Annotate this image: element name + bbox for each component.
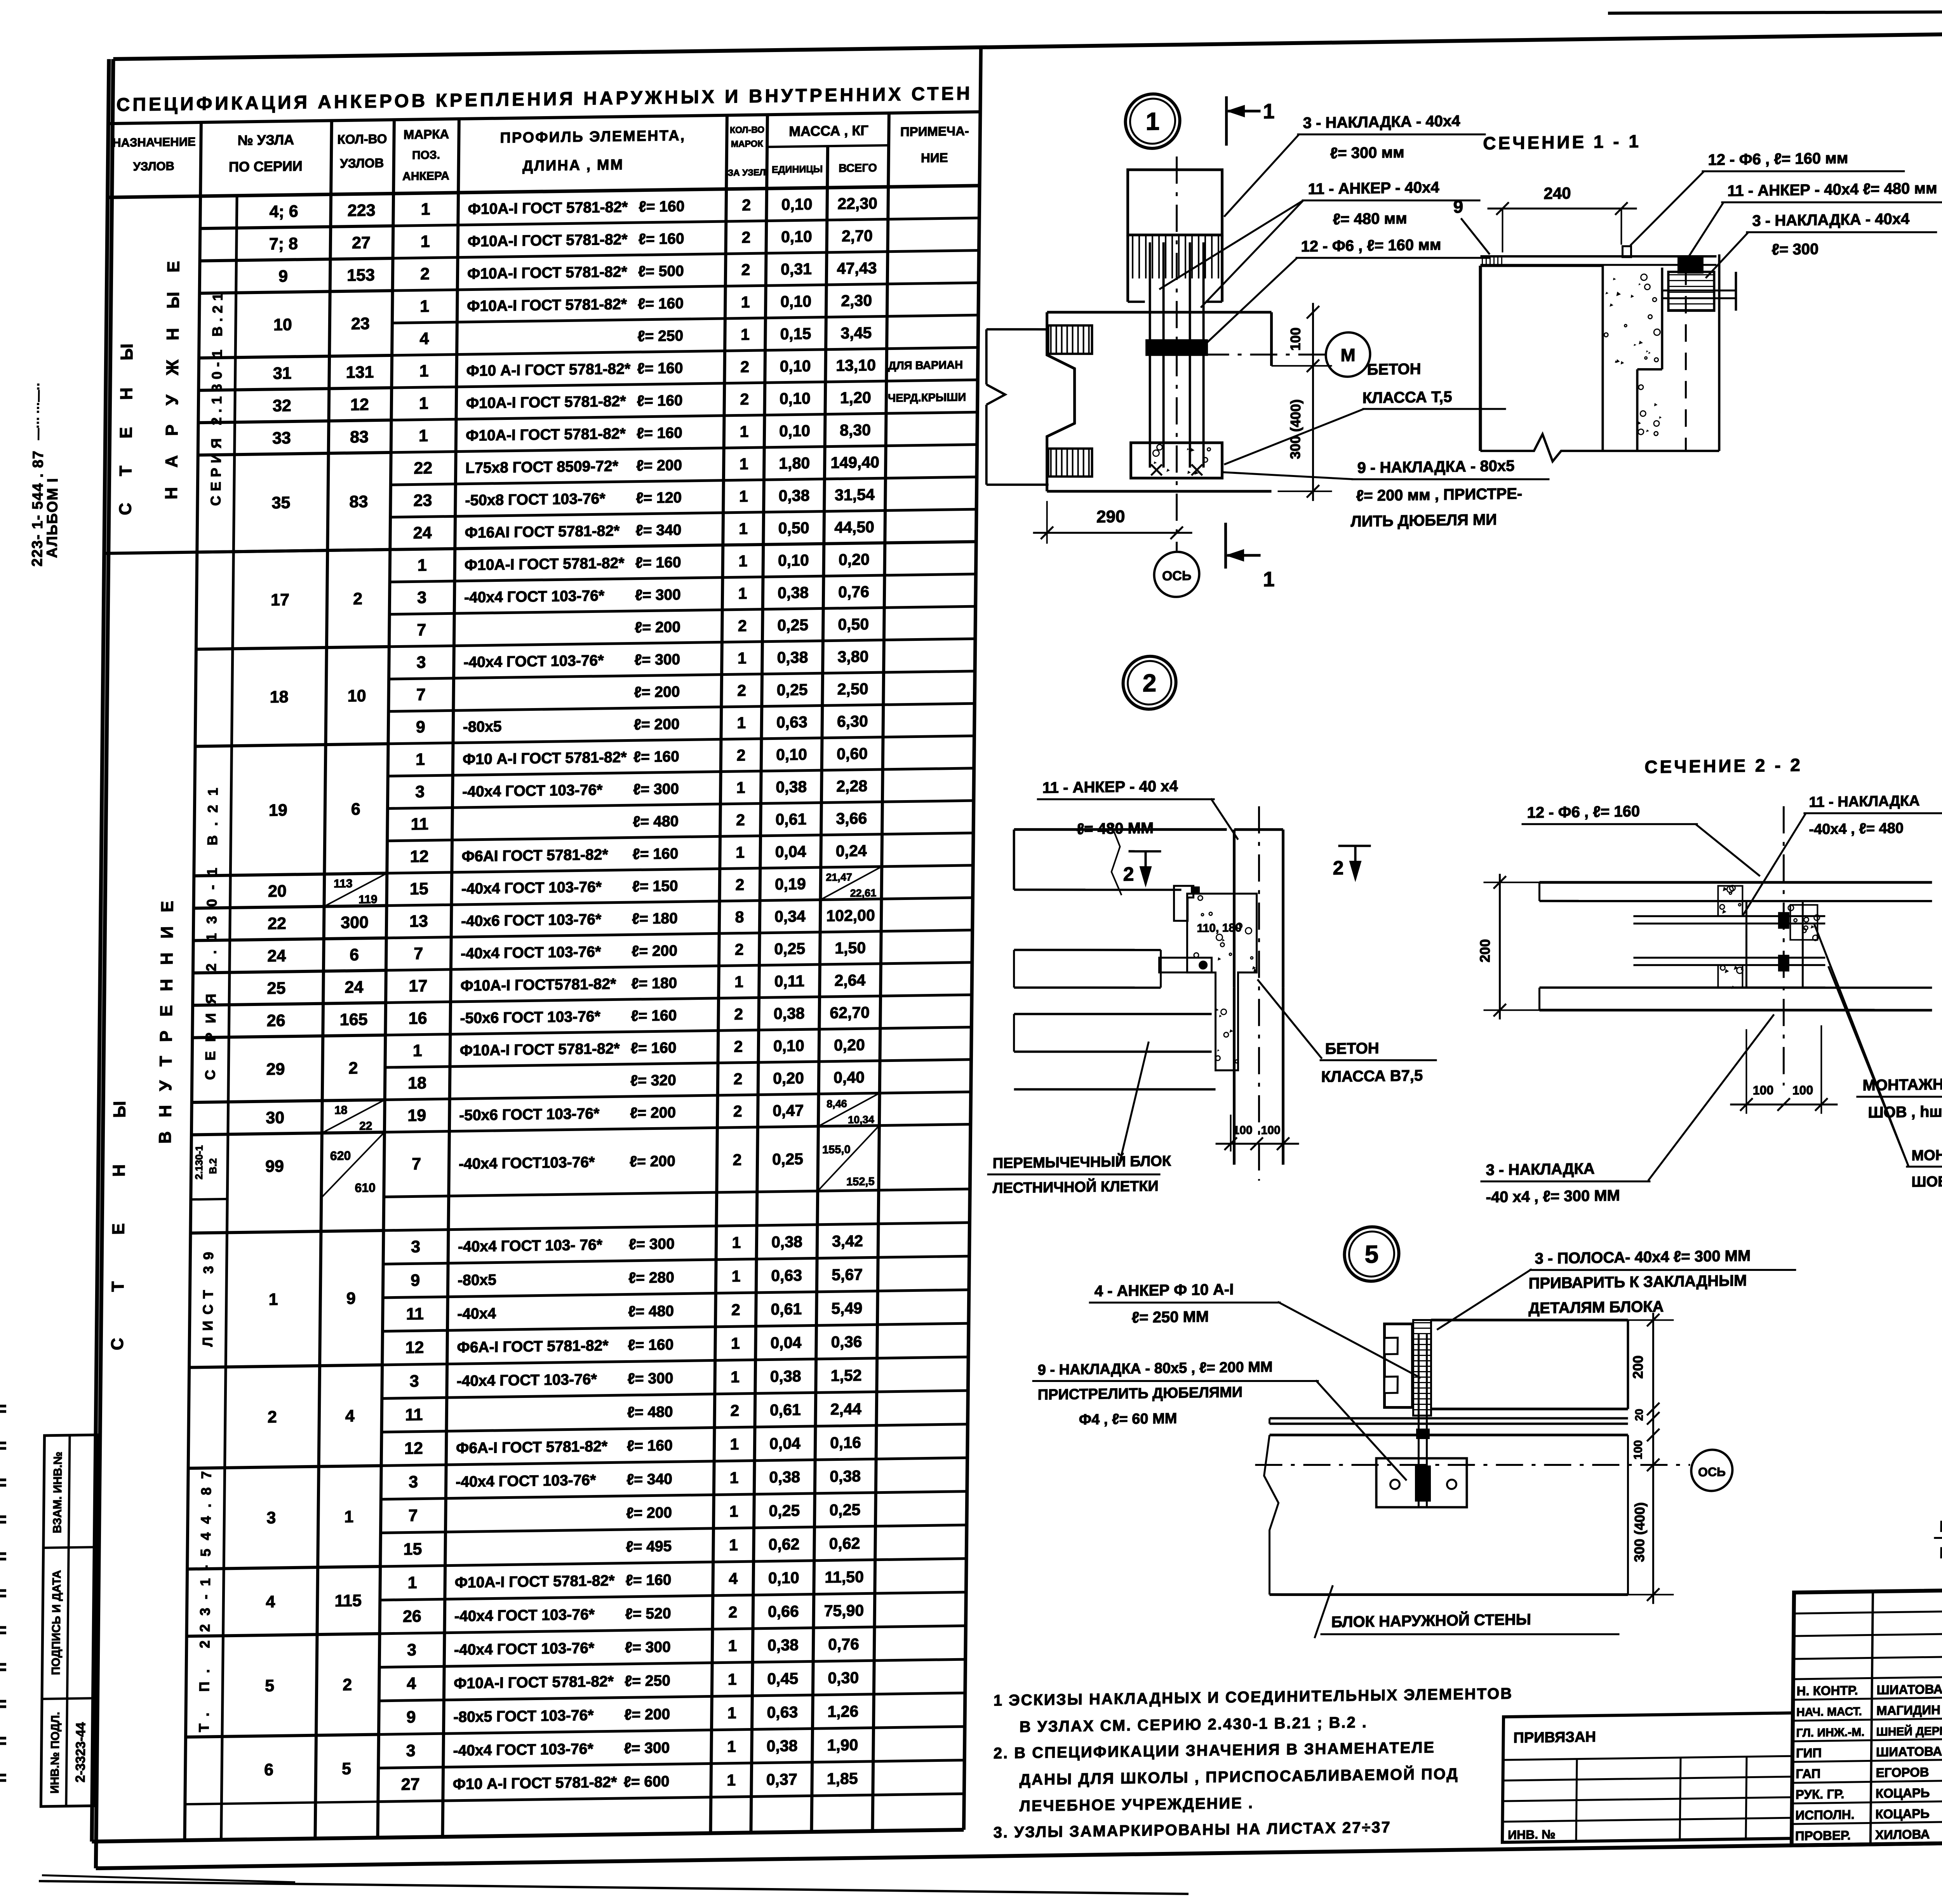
svg-text:НИЕ: НИЕ: [921, 150, 948, 165]
svg-text:0,38: 0,38: [771, 1233, 802, 1251]
svg-text:0,31: 0,31: [781, 260, 812, 278]
svg-text:―··· ···―··: ―··· ···―··: [31, 382, 45, 440]
section22 welds: [1778, 912, 1789, 928]
svg-text:1: 1: [741, 293, 750, 311]
svg-text:Ф10А-I ГОСТ 5781-82*: Ф10А-I ГОСТ 5781-82*: [467, 263, 628, 282]
svg-text:10: 10: [273, 315, 292, 334]
svg-text:3 - НАКЛАДКА - 40х4: 3 - НАКЛАДКА - 40х4: [1752, 210, 1910, 229]
svg-text:30: 30: [266, 1109, 284, 1128]
svg-text:АЛЬБОМ I: АЛЬБОМ I: [44, 477, 61, 558]
svg-text:0,63: 0,63: [776, 713, 807, 731]
svg-text:1: 1: [739, 487, 748, 505]
svg-text:2: 2: [1333, 857, 1343, 879]
node5 floor slab: [1269, 1413, 1628, 1423]
page edge line top right: [1608, 9, 1942, 13]
svg-text:Ф10 А-I ГОСТ 5781-82*: Ф10 А-I ГОСТ 5781-82*: [466, 360, 631, 379]
svg-text:0,45: 0,45: [767, 1669, 798, 1688]
svg-text:26: 26: [403, 1607, 421, 1626]
svg-text:3: 3: [417, 588, 426, 607]
svg-text:3,42: 3,42: [832, 1232, 863, 1250]
svg-text:15: 15: [410, 879, 428, 898]
svg-text:2: 2: [741, 228, 750, 246]
svg-text:2: 2: [353, 590, 362, 608]
svg-text:-40х4 ГОСТ 103-76*: -40х4 ГОСТ 103-76*: [464, 587, 605, 606]
axis circle M: [1202, 353, 1325, 357]
svg-text:КОЦАРЬ: КОЦАРЬ: [1876, 1786, 1930, 1801]
svg-text:620: 620: [330, 1149, 351, 1163]
svg-text:610: 610: [355, 1180, 376, 1195]
svg-text:ℓ= 320: ℓ= 320: [630, 1072, 676, 1089]
svg-text:КОЛ-ВО: КОЛ-ВО: [730, 124, 764, 135]
svg-text:ℓ= 160: ℓ= 160: [635, 554, 681, 571]
svg-text:0,62: 0,62: [768, 1535, 799, 1553]
svg-text:ℓ= 480 мм: ℓ= 480 мм: [1333, 210, 1407, 228]
svg-text:0,04: 0,04: [775, 842, 806, 861]
svg-text:3: 3: [409, 1472, 418, 1491]
svg-text:0,19: 0,19: [775, 875, 806, 893]
svg-text:Ф6АI ГОСТ 5781-82*: Ф6АI ГОСТ 5781-82*: [461, 846, 608, 865]
svg-text:ℓ= 180: ℓ= 180: [631, 975, 677, 992]
svg-text:0,11: 0,11: [774, 972, 804, 990]
svg-text:БЛОК ВН. СТЕН: БЛОК ВН. СТЕН: [1939, 1543, 1942, 1561]
svg-text:Ф10А-I ГОСТ 5781-82*: Ф10А-I ГОСТ 5781-82*: [466, 425, 626, 444]
svg-text:2,50: 2,50: [837, 680, 868, 698]
svg-text:0,10: 0,10: [778, 551, 809, 569]
svg-text:-40х4 ГОСТ 103-76*: -40х4 ГОСТ 103-76*: [461, 879, 602, 897]
svg-text:1: 1: [732, 1234, 741, 1251]
svg-text:2,44: 2,44: [830, 1400, 861, 1418]
svg-text:0,10: 0,10: [781, 195, 813, 213]
svg-text:ЕДИНИЦЫ: ЕДИНИЦЫ: [772, 164, 823, 175]
svg-text:3,80: 3,80: [837, 647, 868, 666]
svg-text:ℓ= 160: ℓ= 160: [626, 1572, 672, 1589]
detail node 1 marker circle: [1125, 94, 1180, 149]
svg-text:7: 7: [408, 1506, 418, 1525]
svg-text:ШОВ , hшв. = 4мм: ШОВ , hшв. = 4мм: [1911, 1172, 1942, 1190]
svg-text:1: 1: [421, 232, 430, 251]
svg-text:13: 13: [409, 912, 428, 931]
svg-text:6,30: 6,30: [837, 712, 868, 730]
section 1-1 dashed edge: [1684, 268, 1688, 451]
svg-text:8: 8: [735, 908, 744, 926]
svg-text:62,70: 62,70: [830, 1003, 870, 1022]
svg-text:2: 2: [740, 390, 749, 408]
svg-text:ℓ= 160: ℓ= 160: [628, 1337, 673, 1354]
svg-text:0,76: 0,76: [828, 1635, 859, 1653]
node2 lower slabs: [1014, 948, 1161, 952]
svg-text:0,20: 0,20: [839, 550, 870, 569]
svg-text:МАРОК: МАРОК: [731, 138, 764, 149]
svg-text:0,38: 0,38: [769, 1468, 800, 1486]
svg-text:1: 1: [418, 556, 427, 574]
svg-text:1: 1: [740, 455, 748, 473]
detail node 5 marker circle: [1344, 1227, 1399, 1282]
svg-text:ДЛИНА , ММ: ДЛИНА , ММ: [522, 157, 624, 174]
svg-text:3 - НАКЛАДКА: 3 - НАКЛАДКА: [1486, 1160, 1595, 1179]
svg-text:ℓ= 300: ℓ= 300: [634, 651, 680, 668]
svg-text:ГЛ. ИНЖ.-М.: ГЛ. ИНЖ.-М.: [1796, 1726, 1864, 1739]
svg-text:ПРИМЕЧА-: ПРИМЕЧА-: [900, 124, 969, 139]
svg-text:НАЗНАЧЕНИЕ: НАЗНАЧЕНИЕ: [112, 135, 196, 150]
svg-text:ℓ= 200 мм , ПРИСТРЕ-: ℓ= 200 мм , ПРИСТРЕ-: [1356, 485, 1522, 505]
svg-text:0,38: 0,38: [777, 648, 808, 667]
svg-text:ℓ= 150: ℓ= 150: [632, 878, 678, 895]
svg-text:1: 1: [729, 1536, 738, 1554]
svg-text:7: 7: [412, 1155, 421, 1173]
svg-text:2: 2: [268, 1408, 277, 1426]
svg-text:31,54: 31,54: [835, 486, 875, 504]
svg-text:РУК. ГР.: РУК. ГР.: [1796, 1787, 1845, 1802]
svg-text:2: 2: [730, 1401, 739, 1419]
svg-text:1,26: 1,26: [827, 1702, 858, 1721]
svg-text:ℓ= 300: ℓ= 300: [633, 781, 679, 798]
svg-text:19: 19: [269, 801, 287, 820]
svg-text:25: 25: [267, 979, 285, 998]
svg-text:3: 3: [415, 783, 425, 801]
svg-text:0,50: 0,50: [778, 519, 809, 537]
node2 upper slab: [1014, 827, 1227, 832]
svg-text:-40х4 , ℓ= 480: -40х4 , ℓ= 480: [1809, 820, 1904, 837]
svg-text:ВСЕГО: ВСЕГО: [839, 162, 877, 174]
svg-text:1,50: 1,50: [835, 939, 866, 957]
svg-text:300 (400): 300 (400): [1631, 1502, 1648, 1562]
svg-text:12: 12: [350, 395, 369, 414]
weld joint band 12-F6: [1146, 339, 1207, 356]
svg-text:83: 83: [350, 428, 369, 447]
svg-text:17: 17: [271, 590, 289, 609]
horizontal wall panel plan: [1047, 309, 1272, 315]
svg-text:0,76: 0,76: [838, 583, 869, 601]
svg-text:290: 290: [1096, 507, 1125, 526]
svg-text:3. УЗЛЫ ЗАМАРКИРОВАНЫ НА: 3. УЗЛЫ ЗАМАРКИРОВАНЫ НА ЛИСТАХ 27÷37: [994, 1819, 1391, 1841]
svg-text:1: 1: [419, 426, 428, 445]
svg-text:0,38: 0,38: [767, 1636, 799, 1654]
svg-text:9: 9: [406, 1708, 416, 1726]
svg-text:Ф10А-I ГОСТ 5781-82*: Ф10А-I ГОСТ 5781-82*: [466, 393, 626, 412]
svg-text:ℓ= 200: ℓ= 200: [626, 1504, 672, 1522]
svg-text:2: 2: [733, 1070, 742, 1088]
svg-text:0,63: 0,63: [771, 1266, 802, 1284]
svg-text:4: 4: [407, 1674, 416, 1693]
svg-text:11,50: 11,50: [825, 1568, 864, 1586]
svg-text:2: 2: [742, 196, 751, 214]
svg-text:ℓ= 520: ℓ= 520: [625, 1605, 671, 1623]
svg-text:300 (400): 300 (400): [1287, 399, 1303, 459]
svg-text:ℓ= 600: ℓ= 600: [624, 1773, 670, 1791]
svg-text:11 - АНКЕР - 40х4 ℓ= 480 мм: 11 - АНКЕР - 40х4 ℓ= 480 мм: [1727, 180, 1937, 200]
svg-text:1: 1: [729, 1502, 738, 1520]
svg-text:ПЕРЕМЫЧЕЧНЫЙ БЛОК: ПЕРЕМЫЧЕЧНЫЙ БЛОК: [993, 1152, 1171, 1171]
svg-text:113: 113: [334, 877, 353, 890]
svg-text:1: 1: [739, 520, 748, 538]
svg-text:Т. П. 223-1-544.87: Т. П. 223-1-544.87: [196, 1462, 214, 1732]
svg-text:240: 240: [1544, 184, 1571, 202]
svg-text:5: 5: [1364, 1240, 1378, 1268]
svg-text:0,38: 0,38: [778, 486, 809, 505]
svg-text:83: 83: [349, 493, 368, 512]
section22 lower band: [1539, 982, 1932, 993]
svg-text:-40х4: -40х4: [457, 1305, 496, 1322]
svg-text:ℓ= 200: ℓ= 200: [634, 716, 680, 733]
svg-text:20: 20: [268, 882, 287, 901]
svg-text:1,52: 1,52: [831, 1366, 862, 1385]
svg-text:1: 1: [727, 1737, 736, 1755]
svg-text:0,60: 0,60: [837, 745, 868, 763]
section 1-1 top plate 9: [1480, 253, 1716, 259]
svg-text:Ф10А-I ГОСТ 5781-82*: Ф10А-I ГОСТ 5781-82*: [468, 231, 628, 250]
svg-text:ПОЗ.: ПОЗ.: [412, 149, 440, 162]
svg-text:ℓ= 160: ℓ= 160: [637, 392, 683, 410]
svg-text:ℓ= 160: ℓ= 160: [631, 1039, 677, 1057]
privyazan block: [1502, 1713, 1793, 1842]
svg-text:4: 4: [729, 1570, 738, 1587]
svg-text:1: 1: [730, 1435, 739, 1453]
svg-text:ПРОФИЛЬ ЭЛЕМЕНТА,: ПРОФИЛЬ ЭЛЕМЕНТА,: [500, 127, 686, 146]
svg-text:0,38: 0,38: [776, 778, 807, 796]
svg-text:2: 2: [737, 681, 746, 699]
svg-text:21,47: 21,47: [826, 871, 852, 883]
svg-text:0,36: 0,36: [831, 1333, 862, 1351]
svg-text:10,34: 10,34: [848, 1114, 874, 1126]
svg-text:1: 1: [419, 394, 428, 413]
svg-text:1: 1: [728, 1670, 737, 1688]
svg-text:9: 9: [346, 1289, 356, 1308]
svg-text:0,25: 0,25: [829, 1501, 860, 1519]
svg-text:1,80: 1,80: [779, 454, 810, 472]
svg-text:МАССА , КГ: МАССА , КГ: [789, 122, 868, 139]
specification table outer border: [92, 59, 109, 1841]
svg-text:СТЕНЫ: СТЕНЫ: [116, 316, 137, 515]
section mark 1 bottom: [1225, 523, 1226, 569]
svg-text:2-3323-44: 2-3323-44: [73, 1722, 88, 1783]
svg-text:1: 1: [344, 1507, 353, 1526]
svg-text:СЕЧЕНИЕ 1 - 1: СЕЧЕНИЕ 1 - 1: [1483, 131, 1641, 153]
vertical axis line: [1173, 157, 1180, 551]
svg-text:БЕТОН: БЕТОН: [1367, 360, 1421, 378]
svg-text:5,49: 5,49: [831, 1299, 862, 1317]
svg-text:ШОВ , hшв. = 4ММ: ШОВ , hшв. = 4ММ: [1868, 1102, 1942, 1121]
svg-text:ℓ= 340: ℓ= 340: [626, 1471, 672, 1488]
svg-text:0,10: 0,10: [781, 228, 812, 246]
svg-text:ПЕРЕМЫЧЕЧНЫЙ: ПЕРЕМЫЧЕЧНЫЙ: [1939, 1516, 1942, 1535]
svg-text:УЗЛОВ: УЗЛОВ: [133, 159, 175, 173]
svg-text:0,34: 0,34: [774, 907, 806, 926]
svg-text:2: 2: [740, 358, 749, 376]
svg-text:Ф10А-I ГОСТ 5781-82*: Ф10А-I ГОСТ 5781-82*: [468, 199, 628, 218]
svg-text:4: 4: [266, 1592, 275, 1611]
svg-text:М: М: [1340, 345, 1356, 365]
svg-text:3 - ПОЛОСА- 40х4 ℓ= 300 ММ: 3 - ПОЛОСА- 40х4 ℓ= 300 ММ: [1535, 1247, 1751, 1267]
node5 hatched plate: [1412, 1320, 1432, 1416]
svg-text:75,90: 75,90: [824, 1601, 864, 1620]
svg-text:2: 2: [736, 746, 745, 764]
diagonal split cells col3 and col8: [324, 873, 387, 907]
node2 lower vertical wall: [1232, 988, 1236, 1165]
svg-text:Ф16АI ГОСТ 5781-82*: Ф16АI ГОСТ 5781-82*: [465, 522, 620, 541]
svg-text:153: 153: [347, 266, 375, 285]
svg-text:16: 16: [409, 1009, 427, 1028]
section mark 1 top: [1226, 96, 1227, 146]
svg-text:МАГИДИН: МАГИДИН: [1876, 1702, 1940, 1718]
svg-text:1: 1: [1263, 100, 1275, 123]
svg-text:0,04: 0,04: [770, 1333, 801, 1352]
svg-text:Ф10А-I ГОСТ 5781-82*: Ф10А-I ГОСТ 5781-82*: [454, 1673, 614, 1692]
svg-text:0,40: 0,40: [834, 1068, 865, 1086]
svg-text:200: 200: [1630, 1355, 1646, 1379]
svg-text:5: 5: [342, 1760, 351, 1778]
svg-text:18: 18: [270, 687, 289, 707]
svg-text:18: 18: [334, 1104, 348, 1117]
svg-text:2: 2: [734, 1037, 743, 1055]
svg-text:11: 11: [406, 1305, 424, 1324]
svg-text:ℓ= 200: ℓ= 200: [630, 1104, 676, 1122]
svg-text:0,61: 0,61: [771, 1300, 802, 1318]
svg-text:1: 1: [413, 1041, 422, 1060]
svg-text:99: 99: [265, 1157, 284, 1176]
svg-text:0,04: 0,04: [769, 1434, 800, 1453]
svg-text:ГИП: ГИП: [1796, 1746, 1822, 1760]
hatched end block bottom: [1048, 448, 1092, 477]
svg-text:ПРОВЕР.: ПРОВЕР.: [1795, 1828, 1851, 1843]
svg-text:1: 1: [408, 1573, 417, 1592]
upper panel hatched joint zone: [1127, 235, 1128, 302]
svg-text:223: 223: [348, 201, 376, 220]
section 1-1 right wall edge: [1718, 254, 1721, 451]
svg-text:-50х8 ГОСТ 103-76*: -50х8 ГОСТ 103-76*: [465, 490, 606, 509]
svg-text:ℓ= 160: ℓ= 160: [633, 748, 679, 766]
svg-text:2,70: 2,70: [842, 227, 873, 245]
svg-text:1: 1: [740, 423, 748, 440]
section22 axis: [1781, 806, 1786, 1086]
svg-text:Ф10 А-I ГОСТ 5781-82*: Ф10 А-I ГОСТ 5781-82*: [453, 1774, 618, 1793]
node2 concrete tee: [1185, 893, 1257, 1071]
svg-text:23: 23: [351, 314, 370, 333]
svg-text:Н. КОНТР.: Н. КОНТР.: [1796, 1683, 1858, 1698]
svg-text:27: 27: [401, 1775, 420, 1794]
svg-text:ЛЕСТНИЧНОЙ КЛЕТКИ: ЛЕСТНИЧНОЙ КЛЕТКИ: [993, 1177, 1159, 1197]
svg-text:ЗА УЗЕЛ: ЗА УЗЕЛ: [728, 167, 766, 178]
svg-text:22,30: 22,30: [837, 194, 877, 212]
svg-text:2: 2: [741, 261, 750, 278]
svg-text:ℓ= 340: ℓ= 340: [635, 522, 681, 539]
svg-text:ИНВ.№ ПОДЛ.: ИНВ.№ ПОДЛ.: [49, 1712, 62, 1794]
svg-text:ЛИТЬ ДЮБЕЛЯ МИ: ЛИТЬ ДЮБЕЛЯ МИ: [1350, 511, 1497, 530]
svg-text:ℓ= 480: ℓ= 480: [633, 813, 679, 830]
svg-text:1: 1: [736, 843, 745, 861]
svg-text:3: 3: [416, 653, 426, 672]
svg-text:2: 2: [738, 617, 747, 635]
svg-text:100: 100: [1632, 1440, 1644, 1460]
section22 joint verticals: [1745, 901, 1747, 988]
svg-text:20: 20: [1633, 1409, 1645, 1421]
svg-text:2: 2: [735, 875, 744, 893]
svg-text:-50х6 ГОСТ 103-76*: -50х6 ГОСТ 103-76*: [459, 1105, 600, 1124]
svg-text:ℓ= 200: ℓ= 200: [630, 1153, 675, 1170]
svg-text:ℓ= 300 мм: ℓ= 300 мм: [1330, 144, 1404, 162]
svg-text:ℓ= 120: ℓ= 120: [636, 489, 682, 507]
svg-text:ЛИСТ 39: ЛИСТ 39: [200, 1246, 216, 1347]
svg-text:-40х4 ГОСТ 103-76*: -40х4 ГОСТ 103-76*: [461, 943, 601, 962]
svg-text:9: 9: [278, 267, 288, 285]
svg-text:-40х4 ГОСТ 103-76*: -40х4 ГОСТ 103-76*: [456, 1371, 597, 1390]
table column lines: [184, 122, 201, 1840]
title block border: [1792, 1582, 1942, 1845]
svg-text:Ф10А-I ГОСТ 5781-82*: Ф10А-I ГОСТ 5781-82*: [455, 1572, 615, 1591]
svg-text:ГАП: ГАП: [1796, 1766, 1820, 1781]
svg-text:ВЗАМ. ИНВ.№: ВЗАМ. ИНВ.№: [51, 1451, 64, 1533]
svg-text:11 - АНКЕР - 40х4: 11 - АНКЕР - 40х4: [1308, 179, 1439, 198]
svg-text:100: 100: [1233, 1124, 1252, 1137]
svg-text:0,10: 0,10: [780, 389, 811, 407]
svg-text:6: 6: [264, 1761, 273, 1779]
svg-text:35: 35: [271, 493, 290, 512]
svg-text:12: 12: [410, 847, 429, 866]
svg-text:0,66: 0,66: [768, 1602, 799, 1620]
svg-text:ℓ= 300: ℓ= 300: [625, 1639, 671, 1656]
svg-text:1 ЭСКИЗЫ НАКЛАДНЫХ И СОЕДИН: 1 ЭСКИЗЫ НАКЛАДНЫХ И СОЕДИНИТЕЛЬНЫХ ЭЛЕМ…: [994, 1685, 1513, 1709]
svg-text:ℓ= 160: ℓ= 160: [627, 1437, 673, 1455]
svg-text:100: 100: [1261, 1124, 1280, 1137]
svg-text:22: 22: [268, 914, 286, 933]
svg-text:СПЕЦИФИКАЦИЯ АНКЕРОВ КРЕПЛЕН: СПЕЦИФИКАЦИЯ АНКЕРОВ КРЕПЛЕНИЯ НАРУЖНЫХ …: [116, 83, 973, 115]
svg-text:3,66: 3,66: [836, 809, 867, 827]
svg-text:ℓ= 250: ℓ= 250: [625, 1673, 670, 1690]
svg-text:ℓ= 160: ℓ= 160: [632, 845, 678, 863]
svg-text:2: 2: [343, 1676, 352, 1694]
svg-text:Ф6А-I ГОСТ 5781-82*: Ф6А-I ГОСТ 5781-82*: [457, 1337, 609, 1356]
table header lines: [108, 112, 980, 124]
page edge line bottom left: [39, 1881, 1189, 1894]
svg-text:ПРИВЯЗАН: ПРИВЯЗАН: [1513, 1729, 1596, 1746]
svg-text:3,45: 3,45: [840, 324, 872, 342]
svg-text:6: 6: [350, 945, 359, 964]
svg-text:1: 1: [727, 1771, 736, 1789]
svg-text:11: 11: [411, 815, 429, 834]
svg-text:1: 1: [736, 778, 745, 796]
svg-text:12: 12: [405, 1338, 424, 1357]
svg-text:2,28: 2,28: [836, 777, 867, 795]
svg-text:0,38: 0,38: [770, 1367, 801, 1385]
svg-text:0,16: 0,16: [830, 1434, 861, 1452]
svg-text:ℓ= 300: ℓ= 300: [635, 587, 681, 604]
svg-text:1,90: 1,90: [827, 1736, 858, 1754]
svg-text:ℓ= 300: ℓ= 300: [624, 1740, 670, 1757]
svg-text:ШНЕЙ ДЕРМАН: ШНЕЙ ДЕРМАН: [1876, 1724, 1942, 1739]
svg-text:Ф10А-I ГОСТ 5781-82*: Ф10А-I ГОСТ 5781-82*: [460, 1040, 620, 1059]
svg-text:29: 29: [266, 1060, 285, 1079]
svg-text:1: 1: [420, 297, 429, 316]
svg-text:КОЛ-ВО: КОЛ-ВО: [337, 132, 387, 147]
svg-text:12 - Ф6 , ℓ= 160 мм: 12 - Ф6 , ℓ= 160 мм: [1708, 150, 1848, 169]
svg-text:300: 300: [341, 913, 369, 932]
svg-text:ℓ= 200: ℓ= 200: [634, 684, 680, 701]
svg-text:1: 1: [269, 1290, 278, 1309]
section22 upper band: [1539, 877, 1932, 888]
svg-text:0,24: 0,24: [836, 842, 867, 860]
svg-text:В УЗЛАХ СМ. СЕРИЮ 2.430-1 В: В УЗЛАХ СМ. СЕРИЮ 2.430-1 В.21 ; В.2 .: [1020, 1714, 1368, 1735]
svg-text:2: 2: [733, 1151, 741, 1169]
table group separators and merged cells: [200, 193, 393, 196]
svg-text:0,20: 0,20: [773, 1069, 804, 1087]
svg-text:№ УЗЛА: № УЗЛА: [238, 132, 294, 148]
svg-text:18: 18: [408, 1074, 426, 1093]
svg-text:47,43: 47,43: [837, 259, 877, 277]
svg-text:27: 27: [352, 233, 371, 252]
svg-text:1: 1: [727, 1704, 736, 1722]
svg-text:ИНВ. №: ИНВ. №: [1508, 1827, 1556, 1842]
svg-text:31: 31: [273, 364, 292, 383]
svg-text:ОСЬ: ОСЬ: [1162, 568, 1192, 583]
